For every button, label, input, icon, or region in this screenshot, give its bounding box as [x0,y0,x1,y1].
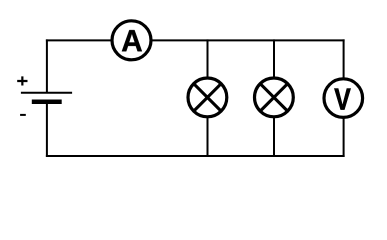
battery B1 negative plate (short thick) [32,99,62,104]
wire: lamp branch 1 vertical [207,39,209,157]
lamp L2 (circle with cross) [255,78,294,117]
lamp L1 (circle with cross) [188,78,227,117]
wire: bottom horizontal rail [46,155,345,157]
battery B1 positive plate (long thin) [21,92,72,94]
label: + polarity [17,76,27,85]
wire: left vertical from battery negative plate to bottom rail [46,102,48,157]
wire: lamp branch 2 vertical [273,39,275,157]
voltmeter V (circle) [324,79,363,118]
ammeter A letter [122,30,142,51]
voltmeter V letter [334,89,350,110]
wire: top horizontal rail [46,39,345,41]
ammeter A (circle) [112,21,151,60]
wire: left vertical from top rail to battery positive plate [46,39,48,92]
wire: right vertical through voltmeter [343,39,345,157]
label: - polarity [20,114,26,116]
